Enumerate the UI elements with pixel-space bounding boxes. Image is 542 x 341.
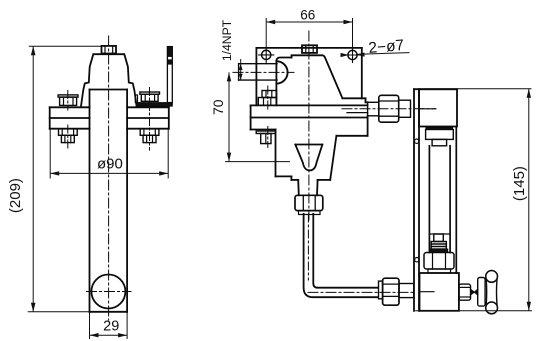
svg-text:(145): (145) (511, 166, 528, 201)
svg-text:29: 29 (103, 319, 119, 335)
svg-text:66: 66 (300, 8, 315, 23)
svg-text:70: 70 (210, 99, 226, 115)
svg-text:(209): (209) (7, 178, 24, 213)
svg-text:2−ø7: 2−ø7 (368, 37, 405, 57)
svg-text:1/4NPT: 1/4NPT (220, 19, 234, 61)
svg-text:ø90: ø90 (97, 156, 123, 173)
